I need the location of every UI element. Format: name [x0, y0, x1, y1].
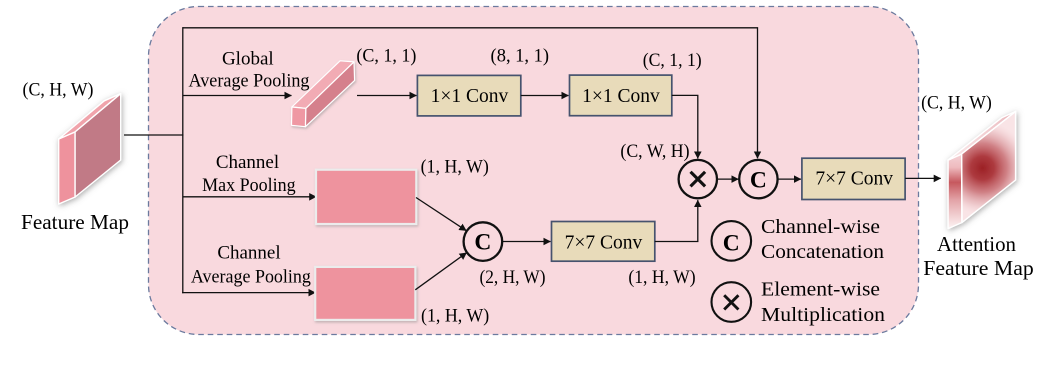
wire conv2 to mult	[672, 95, 698, 158]
svg-text:Channel-wise: Channel-wise	[761, 216, 880, 238]
arrow conv1 to conv2	[521, 95, 569, 97]
conv1 box 1x1	[417, 75, 520, 116]
max branch arrow	[183, 196, 316, 198]
legend mult circle	[712, 282, 752, 322]
conv4 box 7x7	[802, 158, 905, 199]
svg-text:(C, 1, 1): (C, 1, 1)	[356, 46, 416, 67]
top bypass wire into concat2	[183, 28, 758, 159]
svg-text:Average Pooling: Average Pooling	[191, 266, 311, 287]
module background rounded dashed rect	[149, 7, 919, 335]
svg-text:(C, 1, 1): (C, 1, 1)	[643, 50, 702, 71]
arrow conv4 to output	[905, 177, 941, 179]
svg-text:7×7 Conv: 7×7 Conv	[815, 169, 893, 190]
svg-text:Channel: Channel	[216, 152, 279, 173]
svg-text:Global: Global	[222, 49, 274, 70]
svg-text:Average Pooling: Average Pooling	[189, 71, 310, 92]
max pooling rect	[316, 170, 416, 224]
svg-text:1×1 Conv: 1×1 Conv	[431, 86, 509, 107]
diagonal wire max to concat1	[416, 198, 466, 231]
svg-text:(1, H, W): (1, H, W)	[628, 267, 695, 288]
diagonal wire avg to concat1	[415, 253, 466, 290]
svg-text:Element-wise: Element-wise	[761, 279, 880, 301]
svg-text:(1, H, W): (1, H, W)	[421, 157, 489, 178]
svg-text:Max Pooling: Max Pooling	[202, 175, 296, 196]
svg-text:7×7 Conv: 7×7 Conv	[565, 233, 643, 254]
svg-text:C: C	[474, 230, 491, 256]
svg-text:Concatenation: Concatenation	[761, 241, 884, 263]
avg branch arrow	[182, 292, 315, 294]
input feature map 3D box	[59, 94, 121, 204]
svg-text:1×1 Conv: 1×1 Conv	[582, 86, 660, 107]
svg-text:Feature Map: Feature Map	[923, 256, 1034, 280]
trunk wire	[182, 27, 184, 293]
arrow concat1 to conv3	[502, 241, 550, 243]
svg-text:Channel: Channel	[217, 242, 280, 263]
conv3 box 7x7	[552, 222, 655, 262]
wire input to trunk	[124, 134, 184, 136]
arrow mult to concat2	[717, 178, 738, 180]
svg-text:(1, H, W): (1, H, W)	[421, 305, 489, 326]
concat1 circle	[464, 222, 503, 261]
svg-text:(C, W, H): (C, W, H)	[620, 141, 689, 162]
arrow bar to conv1	[357, 95, 417, 97]
GAP branch arrow	[183, 95, 292, 97]
wire conv3 to mult	[655, 200, 698, 241]
svg-text:(C, H, W): (C, H, W)	[23, 80, 94, 101]
mult circle	[679, 160, 717, 198]
svg-text:(8, 1, 1): (8, 1, 1)	[491, 46, 550, 67]
output attention feature map 3D box	[948, 112, 1016, 229]
arrow concat2 to conv4	[778, 178, 801, 180]
svg-text:C: C	[750, 167, 767, 193]
conv2 box 1x1	[570, 75, 672, 116]
svg-text:(C, H, W): (C, H, W)	[921, 93, 992, 114]
avg pooling rect	[315, 267, 415, 320]
GAP output bar (C,1,1)	[292, 61, 355, 127]
svg-text:Multiplication: Multiplication	[761, 304, 885, 326]
svg-text:C: C	[723, 230, 740, 256]
legend concat circle	[712, 221, 752, 261]
svg-text:Feature Map: Feature Map	[21, 210, 129, 234]
svg-text:Attention: Attention	[937, 232, 1016, 256]
concat2 circle	[739, 160, 777, 198]
svg-text:(2, H, W): (2, H, W)	[480, 267, 546, 288]
